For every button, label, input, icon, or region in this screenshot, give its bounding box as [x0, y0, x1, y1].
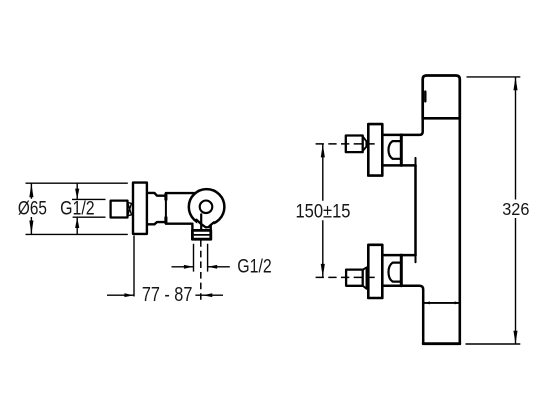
- top connector arc detail: [389, 141, 402, 159]
- lever line: [200, 214, 202, 230]
- svg-text:G1/2: G1/2: [60, 198, 95, 220]
- 326 ext top: [467, 76, 521, 78]
- top junction bar: [400, 135, 403, 166]
- knob hub circle: [200, 201, 213, 214]
- lower flange: [368, 245, 382, 298]
- wall ext line: [133, 236, 135, 297]
- inlet nipple (side view): [111, 201, 128, 218]
- bottom block separation line: [425, 302, 460, 304]
- bottom inlet axis dashed: [316, 276, 379, 278]
- top nipple chamfer: [363, 137, 367, 152]
- lower bracket stub: [415, 255, 417, 262]
- threaded end with X detail: [128, 203, 132, 216]
- G1/2 dim line: [76, 183, 78, 234]
- knob circle: [189, 189, 225, 225]
- spout G1/2 dim line: [172, 266, 230, 268]
- spout sides: [192, 225, 210, 231]
- O65 arrow up: [29, 183, 33, 197]
- main body top edge: [166, 192, 195, 194]
- 77-87 arrow left: [203, 293, 213, 297]
- labels: [18, 198, 530, 306]
- spout collar midline: [194, 234, 209, 236]
- bottom block wedge right: [455, 301, 460, 304]
- O65 extension bottom: [26, 233, 128, 235]
- lower nipple flare: [363, 267, 367, 288]
- lower nipple: [346, 270, 363, 286]
- junction ring: [165, 193, 167, 224]
- 326 arrow up: [513, 77, 517, 90]
- O65 extension top: [26, 182, 128, 184]
- O65 arrow down: [29, 221, 33, 235]
- top knob block: [423, 76, 460, 119]
- main body bottom edge: [166, 222, 193, 224]
- bottom block wedge left: [425, 301, 430, 304]
- G1/2 arrow up: [75, 217, 79, 228]
- spout ext lines: [194, 244, 208, 272]
- top bracket stub: [415, 158, 417, 166]
- 150 dim line: [322, 144, 324, 278]
- spout G1/2 arrow right: [184, 265, 194, 269]
- lever tip pointer: [196, 220, 213, 228]
- top inlet axis dashed: [316, 143, 379, 145]
- arrowheads: [29, 77, 517, 344]
- 77-87 arrow right: [124, 293, 134, 297]
- svg-text:326: 326: [502, 199, 529, 219]
- lower connector bottom + corner into lower column: [382, 286, 423, 344]
- svg-text:G1/2: G1/2: [237, 256, 272, 278]
- G1/2 lower ext line: [73, 216, 106, 218]
- 326 arrow down: [513, 331, 517, 344]
- O65 dimension line: [30, 183, 32, 234]
- svg-text:77 - 87: 77 - 87: [142, 284, 193, 306]
- svg-text:150±15: 150±15: [296, 200, 351, 222]
- 150 arrow down: [321, 264, 325, 278]
- 150 arrow up: [321, 144, 325, 158]
- lower connector arc detail: [389, 263, 402, 282]
- column left edge between unions: [414, 165, 417, 255]
- top flange: [368, 124, 382, 176]
- spout collar: [192, 230, 210, 239]
- button tick on block: [424, 92, 426, 102]
- neck top profile: [147, 193, 166, 196]
- G1/2 upper ext line: [72, 198, 106, 200]
- wall flange (escutcheon): [133, 183, 147, 234]
- G1/2 arrow down: [75, 189, 79, 200]
- 77-87 dim line: [107, 294, 223, 296]
- top nipple: [346, 136, 363, 153]
- column left edge upper + top bracket line: [383, 118, 422, 135]
- lower junction bar: [400, 255, 403, 286]
- 326 dim line: [515, 77, 517, 344]
- 326 ext bottom: [466, 343, 521, 345]
- spout axis dashed: [200, 240, 202, 302]
- bottom block bottom: [423, 342, 460, 345]
- knob bottom mask: [197, 221, 214, 228]
- column right edge: [458, 118, 461, 343]
- spout G1/2 arrow left: [208, 265, 218, 269]
- svg-text:Ø65: Ø65: [18, 198, 47, 220]
- top connector bottom line: [382, 164, 415, 167]
- lower bracket top line: [382, 254, 415, 257]
- neck bottom profile: [147, 222, 166, 224]
